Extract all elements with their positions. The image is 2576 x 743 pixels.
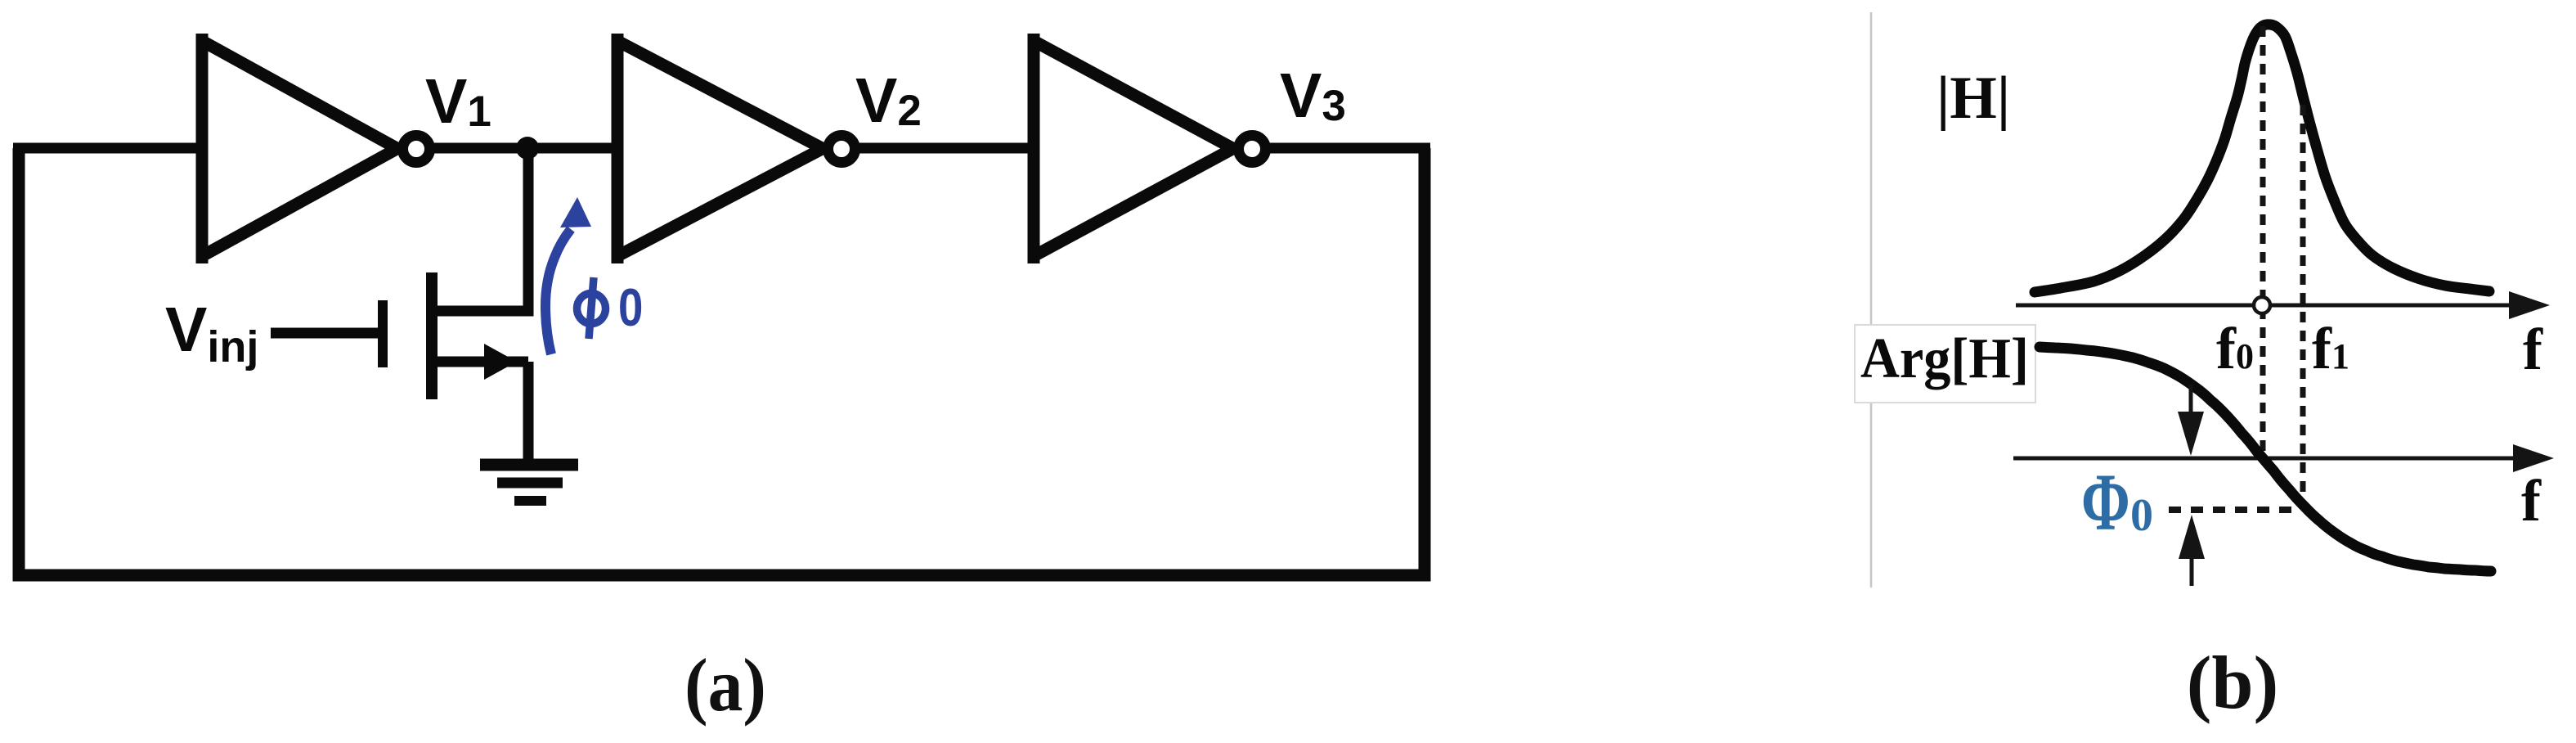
dashed line f1 bbox=[2300, 105, 2306, 501]
transistor Q1 source arrowhead bbox=[484, 344, 517, 380]
wire feedback loop left/bottom/right bbox=[19, 148, 1425, 575]
wire drain to node A bbox=[432, 148, 528, 311]
Arg[H] label box bbox=[1855, 325, 2035, 403]
transistor Q1 channel bar bbox=[426, 272, 438, 399]
arrow up to phi0 level bbox=[2179, 515, 2205, 586]
inverter U2 bbox=[617, 34, 823, 263]
current arrow phi0 (blue) bbox=[545, 197, 591, 354]
svg-text:Arg[H]: Arg[H] bbox=[1860, 327, 2029, 390]
svg-text:0: 0 bbox=[618, 278, 643, 338]
svg-text:V3: V3 bbox=[1280, 61, 1346, 131]
inverter U3 bbox=[1034, 34, 1233, 263]
wire V2 segment bbox=[855, 143, 1036, 154]
wire V1 segment bbox=[429, 143, 620, 154]
svg-text:f0: f0 bbox=[2216, 316, 2254, 381]
svg-text:V1: V1 bbox=[425, 66, 491, 137]
wire gate bbox=[271, 328, 378, 339]
dashed line f0 bbox=[2260, 26, 2266, 455]
transistor Q1 gate bar bbox=[378, 300, 388, 367]
svg-text:Φ: Φ bbox=[2081, 456, 2130, 547]
svg-text:f: f bbox=[2523, 317, 2543, 382]
wire input to inverter U1 bbox=[13, 143, 204, 154]
wire source with arrow bbox=[432, 357, 528, 367]
phase curve Arg[H] bbox=[2040, 347, 2491, 571]
node f0 circle on axis bbox=[2254, 297, 2270, 313]
svg-text:f: f bbox=[2521, 468, 2542, 534]
svg-text:f1: f1 bbox=[2312, 316, 2349, 381]
inverter U1 bbox=[202, 34, 397, 263]
label phi0 (blue) bbox=[577, 277, 606, 339]
ground bbox=[480, 465, 578, 501]
wire V3 segment bbox=[1265, 143, 1430, 154]
svg-text:0: 0 bbox=[2130, 490, 2153, 541]
|H| axis f bbox=[2016, 291, 2550, 319]
arrow down to phase axis bbox=[2178, 385, 2204, 456]
svg-text:V2: V2 bbox=[855, 65, 922, 136]
bubble of U1 bbox=[403, 136, 430, 163]
svg-text:(b): (b) bbox=[2187, 641, 2278, 724]
svg-text:|H|: |H| bbox=[1936, 65, 2010, 132]
dotted level line phi0 bbox=[2169, 507, 2293, 513]
|H| resonance curve bbox=[2035, 25, 2489, 292]
phase axis f bbox=[2013, 444, 2554, 472]
svg-text:(a): (a) bbox=[684, 644, 766, 727]
svg-text:Vinj: Vinj bbox=[165, 295, 258, 371]
wire source to ground bbox=[523, 362, 534, 463]
panel divider faint line bbox=[1870, 12, 1873, 588]
bubble of U2 bbox=[828, 136, 855, 163]
bubble of U3 bbox=[1239, 136, 1266, 163]
node A junction dot bbox=[516, 137, 539, 160]
